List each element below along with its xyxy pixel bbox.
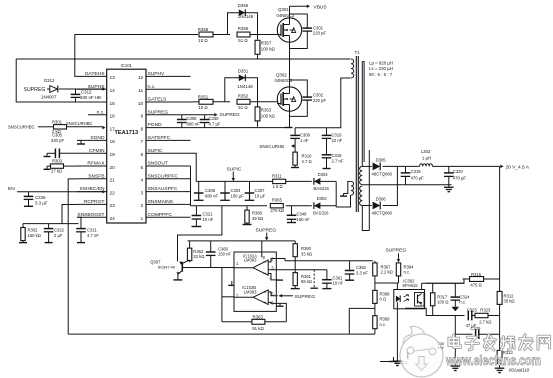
svg-text:470 µF: 470 µF	[411, 176, 425, 181]
resistor R356 51 Ohm	[237, 26, 278, 43]
resistor R303 27 kOhm at RFMAX	[44, 158, 78, 173]
resistor R352 51 Ohm	[237, 94, 278, 111]
ground PGND end bar at Q302 source	[285, 127, 293, 129]
transistor Q301 04N60C3 high-side MOSFET	[277, 7, 302, 42]
capacitor C324 n.c.	[451, 283, 471, 311]
svg-text:R303: R303	[52, 158, 63, 163]
svg-text:12: 12	[138, 75, 144, 81]
pin 13 GATEHS / pin 12 SUPHV	[77, 71, 191, 81]
pin 19 CFMIN / pin 6 SUPIC	[77, 148, 191, 158]
ground at output return	[444, 185, 454, 192]
svg-text:1: 1	[141, 216, 144, 222]
optocoupler IC302 SFH615	[394, 278, 425, 308]
diode D305 48CTQ060	[372, 158, 420, 177]
svg-text:C321: C321	[203, 211, 214, 216]
svg-text:C322: C322	[54, 228, 65, 233]
svg-text:51 Ω: 51 Ω	[238, 105, 248, 110]
capacitor C312 330 nF, node HB	[71, 89, 101, 102]
svg-text:IC101: IC101	[121, 63, 133, 68]
transformer T1 secondary winding upper	[360, 166, 363, 184]
resistor R302 150 kOhm	[19, 224, 41, 243]
svg-text:BAS316: BAS316	[313, 211, 329, 216]
svg-text:C301: C301	[313, 25, 324, 30]
svg-text:R369: R369	[380, 317, 391, 322]
watermark text url	[445, 353, 541, 368]
svg-text:48CTQ060: 48CTQ060	[372, 211, 393, 216]
wire D306 cathode up to output line	[383, 166, 398, 205]
svg-text:100 Ω: 100 Ω	[437, 300, 448, 305]
resistor R369 n.c. SNSFB option	[373, 308, 390, 334]
wire opto LED anode node	[375, 283, 399, 290]
ground tick at IC102B pin6	[277, 303, 284, 306]
svg-text:51 Ω: 51 Ω	[238, 38, 248, 43]
svg-text:100 kΩ: 100 kΩ	[261, 113, 276, 118]
svg-text:680 nF: 680 nF	[187, 121, 200, 126]
svg-text:SNSCURHBC: SNSCURHBC	[66, 121, 93, 126]
svg-text:23: 23	[110, 203, 116, 209]
pin 21 SNSFB / pin 4 SNSCURPFC	[77, 173, 191, 183]
diode D312 1N4007	[41, 78, 106, 100]
svg-text:R317: R317	[437, 294, 448, 299]
svg-text:C348: C348	[297, 212, 308, 217]
svg-text:150 nF: 150 nF	[297, 217, 310, 222]
svg-text:C305: C305	[52, 133, 63, 138]
svg-text:10 nF: 10 nF	[203, 217, 214, 222]
pin 18 SGND / pin 7 GATEPFC	[77, 135, 191, 145]
capacitor C326 3.3 uF	[24, 192, 48, 207]
wire PGND from pin8	[191, 127, 285, 129]
wire aux winding bottom to diodes	[336, 181, 350, 207]
svg-text:n.c.: n.c.	[459, 300, 466, 305]
wire opto LED cathode to ground	[393, 302, 403, 365]
svg-text:91 kΩ: 91 kΩ	[252, 326, 264, 331]
wire Q301 drain and source to HB	[289, 17, 291, 59]
watermark text chinese	[449, 335, 550, 350]
svg-text:www.elecfans.com: www.elecfans.com	[445, 353, 541, 368]
transformer T1 secondary winding lower	[360, 186, 363, 206]
svg-text:R357: R357	[261, 41, 272, 46]
svg-text:68 kΩ: 68 kΩ	[301, 279, 312, 284]
svg-text:SUPREG: SUPREG	[295, 294, 316, 300]
capacitor C348 150 nF	[287, 206, 310, 223]
svg-text:4.7 Ω: 4.7 Ω	[302, 159, 312, 164]
svg-text:C323: C323	[467, 307, 478, 312]
svg-text:15: 15	[110, 101, 116, 107]
svg-text:R352: R352	[238, 94, 249, 99]
svg-text:39 kΩ: 39 kΩ	[252, 216, 263, 221]
svg-text:R353: R353	[261, 108, 272, 113]
svg-text:SUPREG: SUPREG	[220, 112, 241, 118]
capacitor C311 4.7 nF at SNSBOOST	[76, 217, 99, 242]
svg-text:R356: R356	[238, 26, 249, 31]
pin 20 RFMAX / pin 5 SNSOUT	[77, 161, 191, 171]
svg-text:R362: R362	[193, 249, 204, 254]
resistor R367 2.2 kOhm	[373, 261, 393, 283]
capacitor C304 100 uF	[220, 181, 244, 200]
svg-text:R301: R301	[52, 119, 63, 124]
wire 20V rail down right side	[499, 166, 501, 279]
svg-text:17: 17	[110, 126, 116, 132]
transformer T1 single-turn winding verticals	[362, 62, 369, 231]
transistor Q302 04N60C3 low-side MOSFET	[275, 73, 302, 112]
svg-text:Q301: Q301	[278, 7, 289, 12]
resistor R313 lower divider	[495, 334, 514, 372]
svg-text:SFH615: SFH615	[402, 283, 418, 288]
wire secondary bottom to D306	[362, 205, 372, 207]
net label SUPREG into IC102B pin5	[279, 294, 315, 300]
capacitor C308 680 nF on SUPREG	[177, 115, 200, 128]
resistor R355 10 Ohm	[198, 27, 230, 43]
svg-text:680 nF: 680 nF	[205, 193, 218, 198]
svg-text:150 kΩ: 150 kΩ	[28, 233, 41, 238]
wire opto collector node line	[422, 283, 464, 289]
svg-text:C307: C307	[255, 188, 266, 193]
op-amp IC102A LM393	[234, 241, 327, 280]
pin 16 n.c. / pin 9 SUPREG	[88, 109, 191, 119]
resistor R357 100 kOhm gate-source	[255, 35, 275, 60]
wire half-bridge HB line to transformer	[16, 58, 350, 60]
svg-text:R310: R310	[302, 153, 313, 158]
svg-text:1.5 Ω: 1.5 Ω	[273, 184, 283, 189]
svg-text:SNSCURHBC: SNSCURHBC	[8, 125, 35, 130]
svg-text:1N4148: 1N4148	[237, 84, 253, 89]
svg-text:C302: C302	[313, 93, 324, 98]
shunt regulator IC303 TL431 labels (behind watermark)	[437, 342, 444, 350]
svg-text:C304: C304	[231, 188, 242, 193]
watermark stamp logo	[400, 326, 443, 377]
svg-text:10 Ω: 10 Ω	[198, 105, 208, 110]
svg-text:C325: C325	[470, 326, 481, 331]
svg-text:D305: D305	[376, 158, 387, 163]
svg-text:D351: D351	[238, 68, 249, 73]
svg-text:2: 2	[141, 203, 144, 209]
svg-text:R312: R312	[504, 293, 515, 298]
capacitor C302 220 pF across Q302	[290, 80, 327, 116]
svg-text:VBUS: VBUS	[314, 4, 327, 10]
svg-text:27 kΩ: 27 kΩ	[51, 169, 62, 174]
diode D306 48CTQ060	[372, 196, 393, 215]
svg-text:D304: D304	[318, 172, 329, 177]
svg-text:100 kΩ: 100 kΩ	[261, 47, 276, 52]
wire SNSFB bottom rail	[68, 333, 375, 335]
diode D351 1N4148 with loop	[225, 68, 258, 101]
svg-text:1N4148: 1N4148	[238, 14, 254, 19]
svg-text:D312: D312	[44, 78, 55, 83]
op-amp IC102B LM393	[234, 285, 286, 322]
svg-text:4.7 nF: 4.7 nF	[87, 233, 99, 238]
diode D355 1N4148 with loop	[228, 3, 258, 34]
resistor R364 n.c.	[396, 263, 414, 283]
svg-text:22 nF: 22 nF	[332, 138, 343, 143]
svg-text:10 nF: 10 nF	[333, 281, 344, 286]
svg-text:220 pF: 220 pF	[313, 98, 326, 103]
svg-text:C306: C306	[205, 188, 216, 193]
svg-text:Q307: Q307	[150, 259, 161, 264]
svg-text:SNSCURHB: SNSCURHB	[259, 144, 284, 149]
svg-text:150 nF: 150 nF	[218, 252, 231, 257]
resistor R317 100 Ohm	[431, 283, 449, 315]
ground at pin18 SGND	[77, 141, 85, 145]
wire RCPROT to R302/C322	[23, 205, 79, 224]
capacitor C360 150 nF	[206, 241, 232, 268]
svg-text:n.c.: n.c.	[380, 322, 387, 327]
svg-text:R302: R302	[28, 228, 39, 233]
pin 24 SNSBOOST / pin 1 COMPPFC	[77, 212, 191, 222]
resistor R312 36 kOhm on rail	[497, 279, 514, 334]
wire aux winding top to ground tick	[340, 182, 351, 197]
svg-text:0 Ω: 0 Ω	[380, 297, 387, 302]
svg-text:3: 3	[141, 190, 144, 196]
svg-text:10: 10	[138, 101, 144, 107]
resistor R323 2.7 kOhm series	[475, 308, 500, 325]
capacitor C362 3.3 nF	[345, 261, 369, 280]
wire HB net: pin15 to left rail up to half-bridge line	[16, 59, 107, 102]
svg-text:10 Ω: 10 Ω	[198, 38, 208, 43]
svg-text:475 Ω: 475 Ω	[470, 282, 481, 287]
svg-text:14: 14	[110, 88, 116, 94]
net label SUPREG (to D312)	[24, 87, 50, 93]
diode D303 BAS316 lower aux diode	[313, 196, 336, 216]
svg-text:36 kΩ: 36 kΩ	[504, 299, 515, 304]
svg-text:3.3 nF: 3.3 nF	[356, 270, 368, 275]
capacitor C322 2 uF	[44, 224, 65, 243]
svg-text:10 µF: 10 µF	[255, 193, 266, 198]
svg-text:1 nF: 1 nF	[300, 138, 309, 143]
svg-text:R364: R364	[404, 264, 415, 269]
transformer T1 primary winding	[351, 59, 354, 78]
svg-text:R361: R361	[301, 274, 312, 279]
svg-text:C318: C318	[332, 153, 343, 158]
svg-text:C361: C361	[333, 275, 344, 280]
resistor R368 0 Ohm SNSFB link	[373, 283, 390, 308]
capacitor C309 1 nF	[290, 128, 310, 146]
resistor R315 475 Ohm	[426, 272, 500, 287]
svg-text:L302: L302	[421, 149, 431, 154]
svg-text:8: 8	[141, 126, 144, 132]
capacitor C361 10 nF	[322, 270, 344, 289]
svg-text:19: 19	[110, 152, 116, 158]
svg-text:R311: R311	[272, 174, 282, 179]
svg-text:Lp = 820 µH: Lp = 820 µH	[369, 60, 393, 65]
resistor R366 39 kOhm filter	[243, 206, 264, 225]
wire comparator output to Q307 base line	[182, 267, 234, 269]
svg-text:20: 20	[110, 165, 116, 171]
capacitor C301 220 pF across Q301	[290, 14, 327, 49]
svg-text:R365: R365	[272, 198, 283, 203]
capacitor C305 330 pF at CFMIN	[44, 133, 78, 159]
svg-text:13: 13	[110, 75, 116, 81]
ground at watermark area	[380, 357, 398, 362]
svg-text:C324: C324	[459, 294, 470, 299]
pin 15 HB / pin 10 GATELS	[110, 97, 191, 107]
wire GATEHS from pin13 up to gate resistors	[75, 35, 198, 77]
net label 20 V 4.5 A output with arrow	[500, 164, 529, 170]
svg-text:60 : 6 : 6 : 7: 60 : 6 : 6 : 7	[369, 72, 393, 77]
svg-text:2.7 kΩ: 2.7 kΩ	[479, 320, 491, 325]
net label SNSCURHB with arrow	[259, 144, 295, 149]
svg-text:20 V_4.5 A: 20 V_4.5 A	[506, 164, 530, 170]
svg-text:SUPIC: SUPIC	[227, 166, 242, 172]
ground stub below output line	[228, 281, 235, 285]
svg-text:1N4007: 1N4007	[41, 95, 57, 100]
svg-text:11: 11	[138, 88, 143, 94]
op-amp IC102 LM393 box	[234, 252, 276, 311]
svg-text:2.7 nF: 2.7 nF	[332, 159, 344, 164]
wire SNSFB rail from pin21 down-left	[68, 179, 77, 334]
IC IC101 TEA1713 body	[107, 63, 146, 223]
svg-text:48CTQ060: 48CTQ060	[372, 171, 393, 176]
transistor Q307 BC847-40	[150, 259, 189, 280]
svg-text:R360: R360	[301, 246, 312, 251]
net label SUPIC with down arrow	[227, 166, 242, 181]
svg-text:33 kΩ: 33 kΩ	[301, 252, 312, 257]
wire SUPIC from pin6 down to rail	[191, 153, 197, 181]
svg-text:2.2 kΩ: 2.2 kΩ	[381, 270, 393, 275]
svg-text:C311: C311	[87, 228, 97, 233]
wire comparator SUPREG rail	[188, 240, 296, 242]
svg-text:TEA1713: TEA1713	[114, 130, 138, 136]
svg-text:C326: C326	[35, 195, 46, 200]
resistor R363 91 kOhm hysteresis	[222, 314, 286, 331]
wire SNSOUT dogleg to Q307 base with arrow	[178, 206, 222, 265]
svg-text:R368: R368	[380, 291, 391, 296]
net label VBUS	[314, 4, 327, 10]
resistor R311 1.5 Ohm in SUPIC feed	[272, 174, 312, 189]
svg-text:9: 9	[141, 114, 144, 120]
svg-text:3.3 µF: 3.3 µF	[35, 200, 48, 205]
wire SUPIC rail	[196, 180, 273, 182]
net label EN and wire to SSHBC/EN	[8, 186, 106, 194]
wire Q302 drain from HB, source to PGND bar	[289, 59, 291, 128]
svg-text:4.7 µF: 4.7 µF	[209, 121, 221, 126]
svg-text:EN: EN	[8, 186, 15, 192]
pin 22 SSHBC/EN / pin 3 SNSAUXPFC	[77, 186, 191, 196]
svg-text:330 pF: 330 pF	[51, 138, 64, 143]
resistor R361 68 kOhm divider bottom	[291, 261, 312, 289]
svg-text:24: 24	[110, 216, 116, 222]
svg-text:R363: R363	[252, 314, 263, 319]
resistor R310 4.7 Ohm to ground	[291, 146, 312, 168]
capacitor C319 470 uF	[401, 166, 424, 184]
svg-text:SUPREG: SUPREG	[386, 248, 407, 254]
svg-text:BAS316: BAS316	[314, 186, 330, 191]
svg-text:22: 22	[110, 190, 116, 196]
wire VBUS node with arrow	[290, 5, 311, 19]
svg-text:SUPREG: SUPREG	[256, 227, 277, 233]
svg-text:001aal110: 001aal110	[509, 367, 530, 372]
net label SNSCURHBC with resistor R301 2 kOhm	[8, 119, 106, 134]
svg-text:100 µF: 100 µF	[231, 193, 245, 198]
svg-text:470 µF: 470 µF	[453, 176, 467, 181]
svg-text:2 µF: 2 µF	[54, 233, 63, 238]
svg-text:4: 4	[141, 178, 144, 184]
svg-text:33 kΩ: 33 kΩ	[193, 254, 204, 259]
svg-text:LM393: LM393	[244, 289, 257, 294]
wire comparator reference node	[285, 260, 373, 262]
capacitor C307 10 uF	[245, 181, 266, 200]
svg-text:16: 16	[110, 114, 116, 120]
transformer T1 auxiliary winding	[351, 182, 354, 196]
svg-text:330 nF HB: 330 nF HB	[80, 95, 101, 100]
svg-text:1 µH: 1 µH	[422, 155, 431, 160]
inductor L302 1 uH	[420, 149, 500, 166]
capacitor C310 22 nF	[322, 128, 343, 147]
transformer T1 core	[356, 56, 358, 212]
svg-text:6: 6	[141, 152, 144, 158]
svg-text:Q302: Q302	[276, 73, 287, 78]
wire Q307 base node down to R363 loop	[222, 268, 234, 322]
svg-text:21: 21	[110, 178, 116, 184]
svg-text:D303: D303	[317, 196, 328, 201]
svg-text:7: 7	[141, 139, 144, 145]
pin 17 SNSCURHBC / pin 8 PGND	[110, 122, 191, 132]
svg-text:C319: C319	[411, 169, 422, 174]
svg-text:BC847-40: BC847-40	[158, 266, 175, 270]
wire secondary center tap return	[362, 184, 451, 186]
svg-text:C362: C362	[356, 265, 367, 270]
capacitor C318 2.7 nF to ground	[322, 147, 344, 169]
resistor R353 100 kOhm gate-source	[255, 102, 275, 127]
svg-text:C360: C360	[218, 246, 229, 251]
svg-text:18: 18	[110, 139, 116, 145]
wire divider mid node down	[451, 316, 461, 371]
svg-text:n.c.: n.c.	[404, 270, 411, 275]
resistor R362 33 kOhm collector load	[187, 241, 204, 262]
diode D304 BAS316 upper aux diode	[314, 172, 337, 191]
svg-text:D355: D355	[238, 3, 249, 8]
capacitor C320 470 uF	[444, 166, 466, 184]
svg-text:T1: T1	[355, 50, 361, 55]
capacitor C325 compensation	[455, 326, 499, 339]
svg-text:Ls = 220 µH: Ls = 220 µH	[369, 66, 393, 71]
svg-text:LM393: LM393	[244, 258, 257, 263]
label 001aal110	[509, 367, 530, 372]
svg-text:SUPREG: SUPREG	[24, 87, 46, 93]
wire SNSOUT from pin5 down to sense rail	[190, 166, 192, 206]
capacitor C330 4.7 uF on SUPREG	[200, 115, 221, 128]
net label SUPREG above comparator rail with down arrow	[256, 227, 277, 240]
svg-text:5: 5	[141, 165, 144, 171]
svg-text:C320: C320	[453, 169, 464, 174]
resistor R365 270 kOhm sense feed	[270, 198, 284, 213]
capacitor C323 47 uF series	[455, 307, 477, 328]
wire resonant return from transformer primary	[295, 78, 350, 128]
capacitor hidden 2.2 value label	[402, 353, 408, 365]
resistor R351 10 Ohm	[191, 94, 231, 110]
dashed n.c. stub with ground	[310, 270, 318, 289]
svg-text:R323: R323	[480, 308, 491, 313]
svg-text:R367: R367	[381, 264, 392, 269]
svg-text:R355: R355	[198, 27, 209, 32]
svg-text:R351: R351	[198, 94, 209, 99]
svg-text:R315: R315	[471, 272, 482, 277]
pin 23 RCPROT / pin 2 SNSMAINS	[77, 199, 191, 209]
wire SNSOUT sense rail	[191, 205, 312, 207]
net label SUPREG arrow at pin9	[191, 112, 241, 118]
capacitor C306 680 nF	[194, 181, 219, 200]
svg-text:270 kΩ: 270 kΩ	[271, 208, 284, 213]
resistor R360 33 kOhm divider top	[293, 241, 312, 261]
wire opto emitter node line	[405, 308, 455, 315]
wire R368 junction to left riser	[349, 308, 375, 334]
capacitor C321 10 nF filter	[192, 206, 214, 227]
transformer T1 label and ratio text	[355, 50, 394, 77]
svg-text:220 pF: 220 pF	[313, 31, 326, 36]
svg-text:R366: R366	[252, 211, 263, 216]
svg-text:D306: D306	[376, 196, 387, 201]
wire secondary top to D305	[362, 165, 372, 167]
pin 14 SUPHS / pin 11 n.c.	[77, 84, 191, 94]
